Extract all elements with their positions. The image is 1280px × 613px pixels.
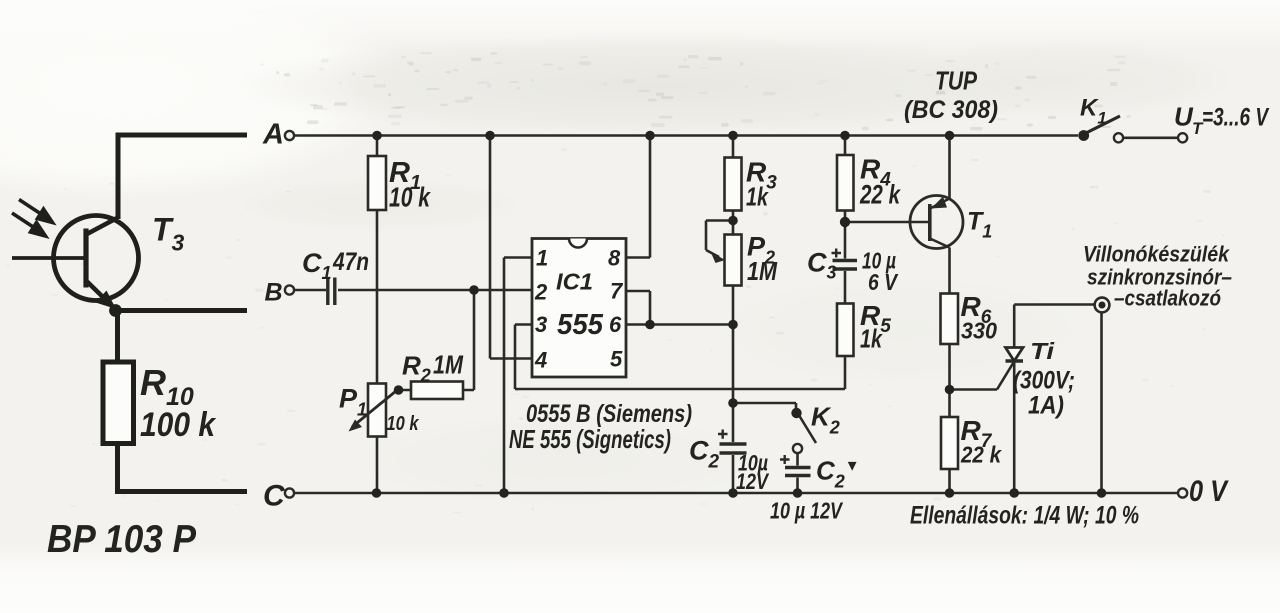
- svg-text:0 V: 0 V: [1189, 475, 1230, 508]
- svg-text:6: 6: [609, 312, 622, 337]
- svg-text:–csatlakozó: –csatlakozó: [1114, 286, 1221, 311]
- svg-text:1k: 1k: [746, 182, 769, 212]
- svg-text:8: 8: [608, 246, 621, 271]
- svg-text:IC1: IC1: [556, 269, 593, 295]
- svg-text:22 k: 22 k: [859, 180, 901, 210]
- svg-text:1k: 1k: [860, 324, 883, 354]
- svg-text:(BC 308): (BC 308): [904, 96, 998, 124]
- svg-text:TUP: TUP: [935, 66, 978, 96]
- svg-text:100 k: 100 k: [140, 406, 217, 444]
- svg-text:1A): 1A): [1028, 392, 1064, 420]
- svg-text:2: 2: [534, 280, 548, 305]
- svg-text:330: 330: [961, 318, 997, 344]
- svg-text:555: 555: [557, 309, 604, 341]
- svg-text:U: U: [1174, 102, 1194, 132]
- svg-text:12V: 12V: [736, 469, 770, 494]
- svg-text:C: C: [263, 480, 286, 513]
- svg-text:B: B: [265, 279, 283, 307]
- svg-text:Ellenállások: 1/4 W; 10 %: Ellenállások: 1/4 W; 10 %: [910, 502, 1139, 530]
- svg-text:10 k: 10 k: [387, 413, 420, 435]
- svg-text:1M: 1M: [747, 256, 778, 286]
- svg-text:Ti: Ti: [1030, 338, 1055, 364]
- svg-text:10 µ 12V: 10 µ 12V: [770, 498, 843, 524]
- svg-text:(300V;: (300V;: [1013, 367, 1075, 395]
- svg-text:5: 5: [610, 347, 623, 372]
- svg-text:=3...6 V: =3...6 V: [1202, 104, 1270, 132]
- svg-text:BP 103 P: BP 103 P: [47, 518, 197, 561]
- svg-text:10 k: 10 k: [389, 182, 431, 213]
- svg-text:22 k: 22 k: [960, 442, 1002, 468]
- svg-text:47n: 47n: [332, 248, 369, 276]
- svg-text:1M: 1M: [433, 350, 464, 380]
- svg-text:3: 3: [535, 312, 547, 337]
- svg-text:NE 555 (Signetics): NE 555 (Signetics): [509, 424, 671, 454]
- svg-text:Villonókészülék: Villonókészülék: [1083, 242, 1231, 267]
- svg-text:7: 7: [610, 279, 624, 304]
- svg-text:6 V: 6 V: [868, 269, 898, 295]
- svg-text:4: 4: [534, 348, 547, 373]
- svg-text:1: 1: [536, 246, 548, 271]
- svg-text:A: A: [262, 119, 284, 151]
